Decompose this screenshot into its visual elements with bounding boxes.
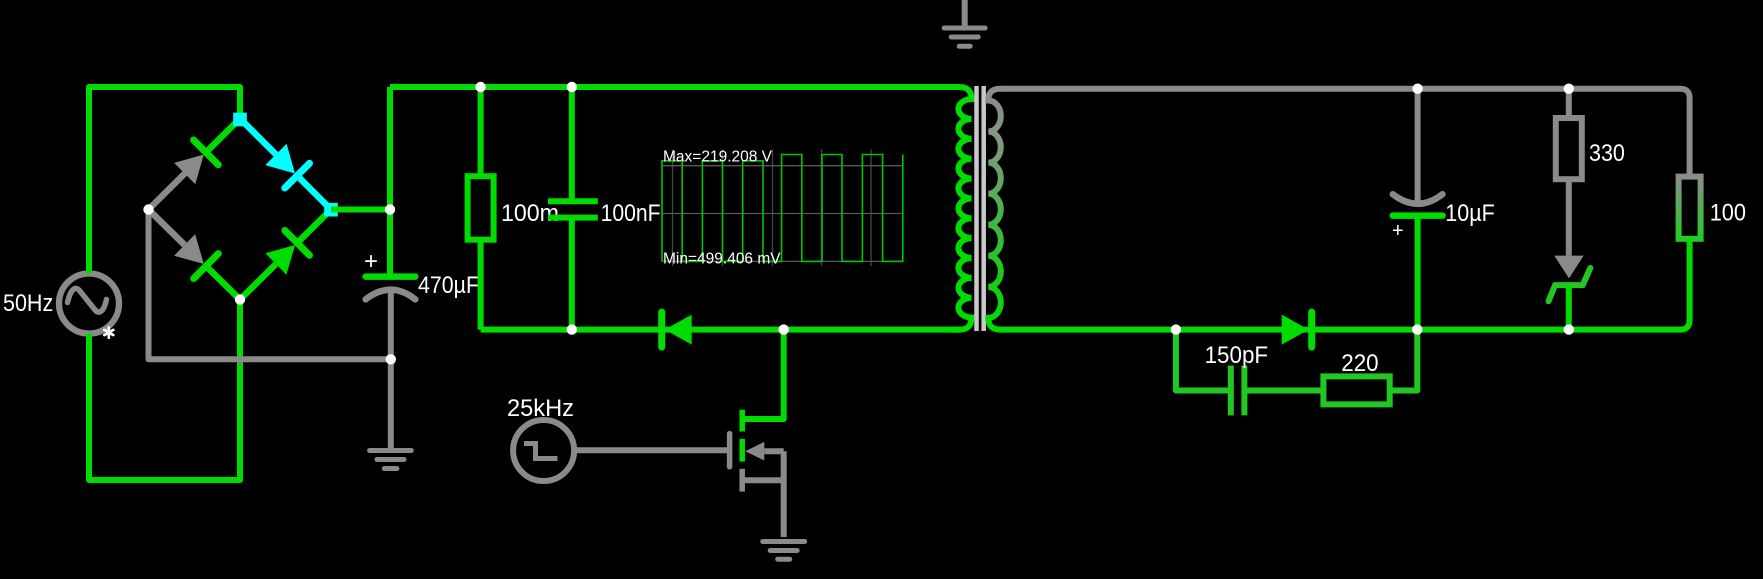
svg-text:100: 100 xyxy=(1710,200,1746,227)
wire C4 top lead xyxy=(1415,89,1421,201)
wire snubber left xyxy=(1176,330,1228,391)
wire R2 to rail xyxy=(1390,330,1418,391)
wire gate xyxy=(575,447,728,453)
ground GND2 xyxy=(763,542,805,560)
capacitor C4 10uF plus plate xyxy=(1393,212,1443,219)
diode D5 freewheel (points left) xyxy=(662,312,692,347)
wire C3 to R2 xyxy=(1244,388,1323,394)
capacitor C1 470uF plus plate xyxy=(366,273,416,280)
node dot bottom rail at C2 xyxy=(567,324,577,334)
transformer T1 core xyxy=(977,86,984,331)
wire R3 to zener xyxy=(1566,179,1572,255)
diode D1 (bridge left-top) xyxy=(149,119,241,210)
transformer T1 secondary winding xyxy=(988,89,1004,330)
scope gridlines vertical xyxy=(673,150,872,267)
node dot drain junction xyxy=(779,324,789,334)
capacitor C2 100nF plate 1 xyxy=(548,198,598,204)
resistor R1 100m xyxy=(468,176,494,240)
svg-text:330: 330 xyxy=(1589,140,1625,167)
wire source top to bridge top node xyxy=(89,87,240,274)
ground GND3 top xyxy=(944,0,985,46)
svg-text:+: + xyxy=(364,248,378,275)
selection handle at right node xyxy=(324,203,338,217)
node dot snubber right xyxy=(1412,324,1422,334)
svg-text:10µF: 10µF xyxy=(1445,200,1494,227)
wire R1 top lead xyxy=(478,87,484,176)
capacitor C1 470uF minus plate xyxy=(366,290,416,300)
svg-text:50Hz: 50Hz xyxy=(3,290,53,317)
wire C2 bottom lead xyxy=(569,218,575,330)
svg-text:Max=219.208 V: Max=219.208 V xyxy=(663,149,773,166)
wire +DC vertical xyxy=(387,87,393,274)
capacitor C4 10uF minus plate xyxy=(1393,194,1443,204)
transistor M1 nMOSFET xyxy=(730,410,784,537)
node dot bottom rail at zener xyxy=(1564,324,1574,334)
diode D3 (bridge left-bottom) xyxy=(149,210,241,300)
diode D4 (bridge bottom-right) xyxy=(240,210,331,300)
svg-text:220: 220 xyxy=(1341,350,1378,377)
diode D6 output (points right) xyxy=(1282,312,1312,347)
node dot top rail at C4 xyxy=(1412,84,1422,94)
node dot gray bus xyxy=(386,354,396,364)
svg-text:Min=499.406 mV: Min=499.406 mV xyxy=(663,251,781,268)
wire gray bus to ground xyxy=(388,359,394,450)
svg-text:+: + xyxy=(1392,220,1404,242)
wire R1 bottom lead xyxy=(478,240,484,330)
wire C2 top lead xyxy=(569,87,575,201)
resistor R4 100 xyxy=(1679,177,1701,239)
node dot top rail at C2 xyxy=(567,82,577,92)
ground GND1 xyxy=(370,451,412,469)
wire C1 minus to gray bus xyxy=(388,293,394,359)
wire bridge right node to +DC node xyxy=(331,207,390,213)
svg-text:150pF: 150pF xyxy=(1205,342,1269,369)
node dot +DC xyxy=(385,204,395,214)
wire source bottom to bridge bottom node xyxy=(89,300,240,481)
wire bottom rail primary xyxy=(481,327,960,333)
resistor R3 330 xyxy=(1556,118,1582,179)
node dot top rail at R3 xyxy=(1564,84,1574,94)
capacitor C2 100nF plate 2 xyxy=(548,215,598,221)
wire top rail primary xyxy=(390,84,960,90)
voltage source V2 25kHz square xyxy=(513,420,574,481)
scope waveform xyxy=(662,155,903,262)
wire top rail secondary xyxy=(1002,89,1690,177)
wire bridge left node down to gray bus xyxy=(149,210,391,360)
scope gridlines horizontal xyxy=(662,166,903,262)
voltage source V1 50Hz AC xyxy=(59,274,119,334)
wire zener to bottom rail xyxy=(1566,285,1572,330)
svg-text:470µF: 470µF xyxy=(418,272,479,299)
node dot bridge left xyxy=(143,204,153,214)
diode D2 (bridge top-right, selected) xyxy=(240,119,331,210)
resistor R2 220 xyxy=(1323,376,1389,404)
asterisk marker xyxy=(104,327,113,337)
node dot top rail at R1 xyxy=(475,82,485,92)
svg-text:100nF: 100nF xyxy=(601,200,661,227)
wire drain xyxy=(742,330,784,419)
svg-text:25kHz: 25kHz xyxy=(507,395,574,422)
node dot bridge bottom xyxy=(235,294,245,304)
transformer T1 primary winding xyxy=(950,87,972,330)
capacitor C3 150pF plate 2 xyxy=(1241,366,1247,416)
wire bottom rail secondary xyxy=(1002,239,1690,330)
wire R3 top lead xyxy=(1566,89,1572,118)
wire C4 bottom lead xyxy=(1415,216,1421,330)
capacitor C3 150pF plate 1 xyxy=(1228,366,1234,416)
diode D7 zener xyxy=(1549,256,1591,302)
node dot snubber left xyxy=(1171,324,1181,334)
selection handle at top node xyxy=(233,113,247,127)
